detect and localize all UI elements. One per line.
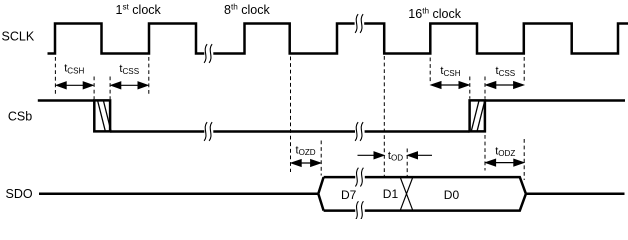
- dashed line at CSb rise box right (tODZ left): [484, 77, 486, 171]
- break SCLK high: [355, 14, 363, 33]
- wire CSb high left: [38, 99, 95, 102]
- dashed line at SCLK falling edge 4 (tOD left): [383, 56, 385, 176]
- svg-text:tODZ: tODZ: [495, 145, 515, 158]
- break SCLK low: [204, 44, 212, 63]
- break CSb low right: [355, 122, 363, 141]
- svg-text:D7: D7: [341, 188, 357, 202]
- svg-text:16th clock: 16th clock: [408, 6, 461, 21]
- dashed line at SDO bus start (tOZD right): [320, 141, 322, 176]
- dashed line at SCLK rising edge 6 (tODZ right): [523, 57, 525, 180]
- wire SCLK segment 1: [48, 24, 205, 54]
- CSb falling transition box: [94, 100, 110, 131]
- arrow tCSS left: [111, 82, 147, 89]
- dashed line at SCLK falling edge 3 (tOZD left): [290, 57, 292, 173]
- CSb rising box hatch: [471, 101, 484, 131]
- arrow tOZD: [292, 160, 321, 167]
- break SDO bus top rail: [355, 168, 363, 187]
- CSb falling box hatch: [98, 101, 111, 131]
- SDO D1/D0 crossover X: [401, 178, 413, 210]
- break CSb low left: [204, 122, 212, 141]
- arrow tOD right (points left): [408, 152, 432, 159]
- svg-text:tCSH: tCSH: [440, 65, 460, 78]
- dashed line at CSb fall box left: [93, 77, 95, 100]
- dashed line at SCLK rising edge 5: [429, 58, 431, 83]
- wire SDO bus bottom rail 2: [365, 194, 526, 211]
- svg-text:tCSS: tCSS: [119, 63, 139, 76]
- wire SDO bus bottom rail 1: [324, 209, 356, 212]
- dashed line at CSb rise box left: [469, 77, 471, 99]
- arrow tCSH left: [57, 82, 93, 89]
- arrow tCSH right: [431, 82, 468, 89]
- wire SCLK segment 2: [213, 24, 354, 54]
- svg-text:D1: D1: [383, 187, 399, 201]
- svg-text:1st clock: 1st clock: [116, 2, 162, 17]
- svg-text:CSb: CSb: [8, 109, 32, 123]
- svg-text:tOD: tOD: [388, 150, 403, 163]
- wire SCLK segment 3: [364, 24, 628, 54]
- break SDO bus bottom rail: [355, 201, 363, 220]
- svg-text:tCSH: tCSH: [64, 63, 84, 76]
- wire CSb high right: [485, 99, 625, 102]
- wire SDO hi-Z right: [526, 193, 625, 196]
- wire CSb low segment 1: [110, 130, 204, 133]
- wire CSb low segment 3: [365, 130, 470, 133]
- arrow tCSS right: [486, 82, 523, 89]
- svg-text:SDO: SDO: [6, 187, 33, 201]
- dashed line at CSb fall box right: [109, 77, 111, 100]
- svg-text:8th clock: 8th clock: [224, 2, 270, 16]
- arrow tOD left (points right): [358, 152, 384, 159]
- svg-text:D0: D0: [444, 188, 460, 202]
- dashed line at SCLK rising edge 1: [54, 57, 56, 95]
- wire SDO bus opening: [318, 177, 323, 211]
- CSb rising transition box: [470, 100, 485, 131]
- svg-text:SCLK: SCLK: [2, 29, 35, 43]
- wire CSb low segment 2: [213, 130, 355, 133]
- wire SDO bus top rail 1: [324, 176, 356, 179]
- svg-text:tOZD: tOZD: [296, 144, 316, 157]
- svg-text:tCSS: tCSS: [496, 65, 516, 78]
- dashed line at SDO D1/D0 crossover (tOD right): [406, 149, 408, 177]
- wire SDO hi-Z left: [39, 193, 318, 196]
- wire SDO bus top rail 2: [365, 177, 526, 194]
- arrow tODZ: [486, 159, 523, 166]
- dashed line at SCLK rising edge 2: [148, 57, 150, 95]
